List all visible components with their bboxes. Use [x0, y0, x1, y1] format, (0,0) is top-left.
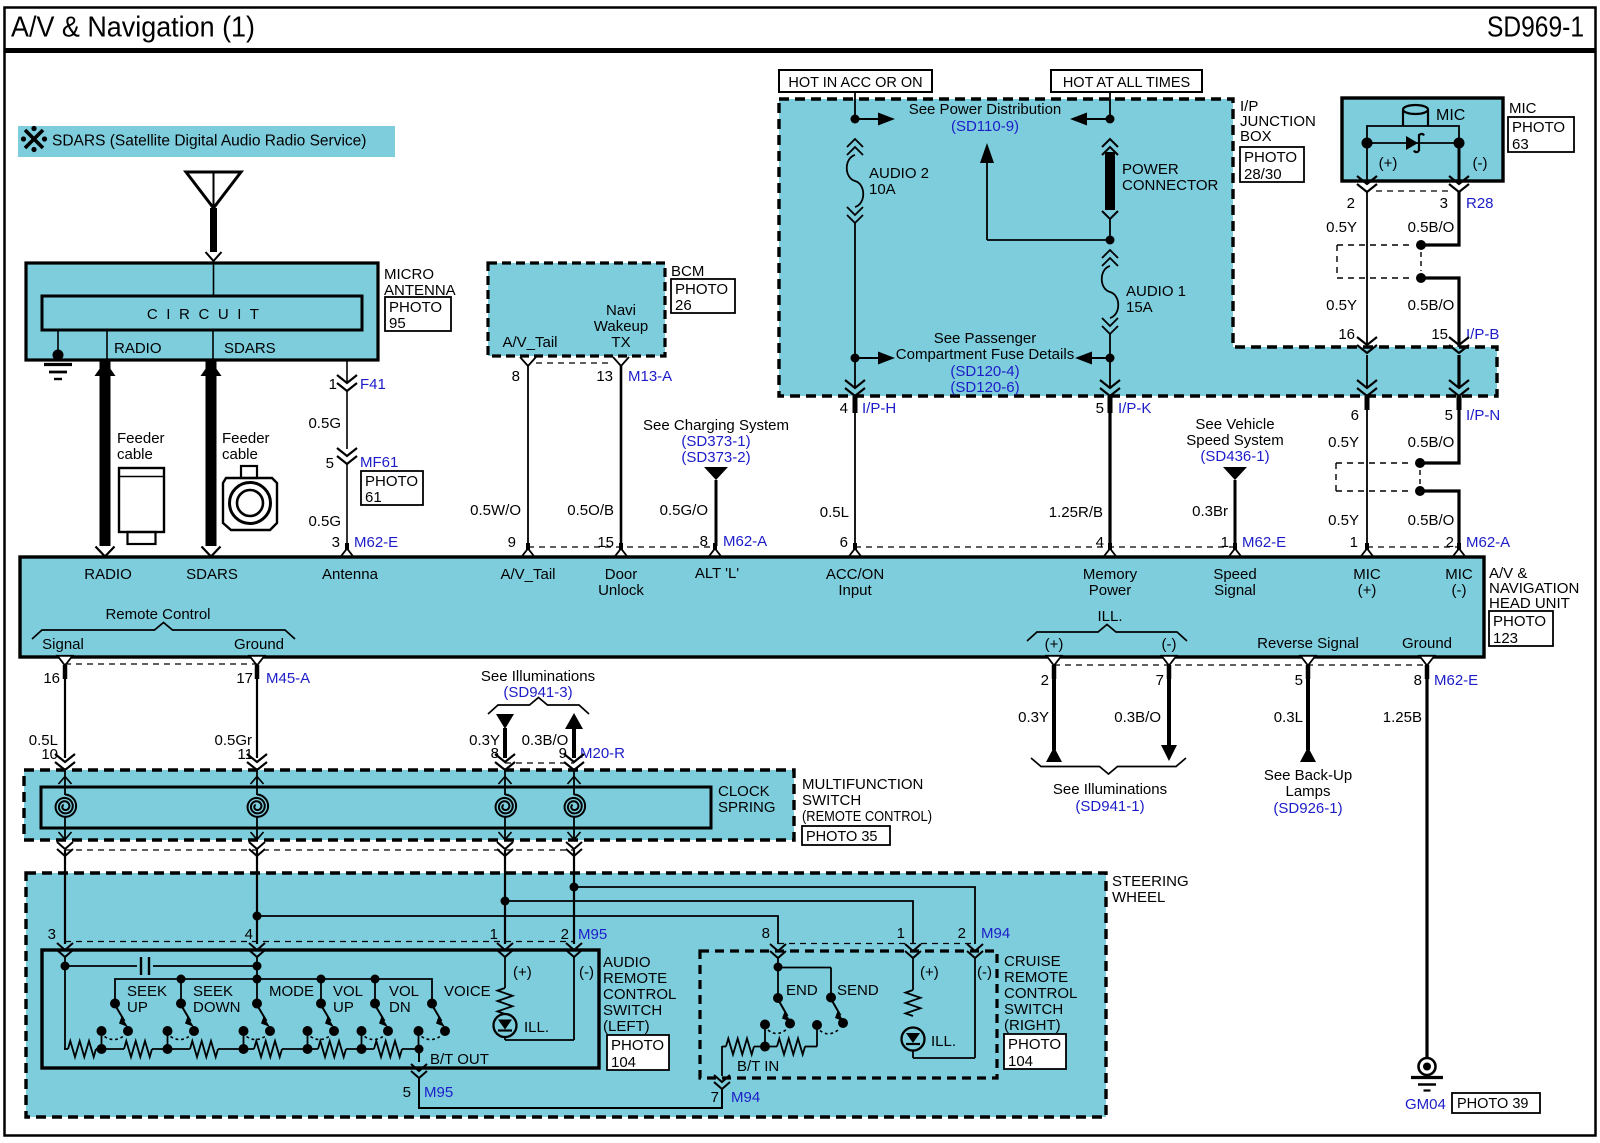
title separator rule	[4, 48, 1596, 53]
mic polarity labels	[1379, 155, 1488, 172]
wire 0.5Y lower	[1328, 410, 1367, 546]
shield node d	[1415, 486, 1425, 496]
illumination arrow down (0.3Y)	[469, 714, 514, 758]
svg-text:0.5L: 0.5L	[820, 504, 849, 521]
cruise branch to SEND	[778, 968, 831, 998]
svg-text:5: 5	[326, 455, 334, 472]
MIC label	[1509, 100, 1537, 117]
connector M62-E boundary bottom	[1041, 665, 1479, 689]
svg-text:0.5Y: 0.5Y	[1326, 297, 1357, 314]
svg-text:(-): (-)	[977, 964, 992, 981]
connector R28 pin3	[1449, 176, 1469, 192]
svg-text:PHOTO: PHOTO	[1244, 149, 1297, 166]
mic minus pin V notch	[1452, 543, 1467, 558]
see passenger compartment fuse details reference	[896, 330, 1074, 396]
wire pin4 inside	[256, 957, 258, 1003]
audio switch entry pin3	[57, 943, 73, 957]
svg-text:(+): (+)	[1358, 582, 1377, 599]
svg-text:See Back-Up: See Back-Up	[1264, 767, 1352, 784]
audio ILL wire upper	[504, 957, 506, 988]
svg-text:104: 104	[611, 1054, 636, 1071]
svg-text:HOT AT ALL TIMES: HOT AT ALL TIMES	[1063, 75, 1190, 91]
clock spring coil 2	[248, 770, 269, 840]
svg-text:Feeder: Feeder	[117, 430, 165, 447]
connector I/P-N pin5	[1449, 380, 1469, 410]
svg-text:PHOTO: PHOTO	[1512, 119, 1565, 136]
wire 0.5G/O	[660, 480, 716, 546]
ILL+ pin V notch	[1047, 656, 1062, 666]
svg-text:MIC: MIC	[1509, 100, 1537, 117]
audio ILL LED	[494, 1014, 550, 1037]
svg-text:5: 5	[1445, 407, 1453, 424]
svg-text:Ground: Ground	[234, 636, 284, 653]
svg-text:13: 13	[596, 368, 613, 385]
wire pin1 drop	[504, 850, 506, 944]
ILL group label	[1027, 608, 1187, 641]
switch bus	[115, 979, 432, 1003]
see power distribution reference	[909, 101, 1062, 135]
audio ILL resistor	[498, 988, 513, 1014]
svg-text:2: 2	[958, 925, 966, 942]
svg-text:HEAD UNIT: HEAD UNIT	[1489, 595, 1570, 612]
svg-text:104: 104	[1008, 1053, 1033, 1070]
svg-text:ILL.: ILL.	[524, 1019, 549, 1036]
wire hot-all feed	[1109, 92, 1111, 119]
bus node seek-down	[177, 975, 186, 1004]
svg-text:6: 6	[1351, 407, 1359, 424]
BCM pin 13 notch	[613, 357, 629, 366]
wire power connector to node	[1109, 219, 1111, 240]
shield dashed box lower	[1336, 463, 1420, 491]
svg-text:Input: Input	[838, 582, 872, 599]
wire antenna to F41	[346, 360, 348, 383]
sdars feeder connector symbol	[223, 466, 277, 530]
svg-text:M95: M95	[578, 926, 607, 943]
svg-text:(-): (-)	[1452, 582, 1467, 599]
svg-text:M94: M94	[981, 925, 1010, 942]
chassis ground symbol	[44, 365, 72, 380]
svg-text:B/T IN: B/T IN	[737, 1058, 779, 1075]
photo ref box PHOTO 35	[802, 826, 890, 845]
svg-text:VOL: VOL	[389, 983, 419, 1000]
svg-text:See Illuminations: See Illuminations	[481, 668, 595, 685]
switch VOICE	[414, 983, 491, 1049]
ground out pin V notch	[1420, 656, 1435, 666]
mic node plus	[1362, 138, 1373, 149]
svg-text:M62-A: M62-A	[723, 533, 767, 550]
svg-text:PHOTO: PHOTO	[1493, 613, 1546, 630]
wire 0.5B/O lower segment b	[1408, 491, 1459, 546]
ACC/ON pin V notch	[848, 543, 863, 558]
svg-text:M95: M95	[424, 1084, 453, 1101]
svg-text:(LEFT): (LEFT)	[603, 1018, 650, 1035]
ILL minus label	[1162, 636, 1177, 653]
svg-text:95: 95	[389, 315, 406, 332]
connector M94 boundary	[762, 925, 1011, 944]
door unlock pin V notch	[614, 543, 629, 558]
memory power pin V notch	[1103, 543, 1118, 558]
svg-text:Door: Door	[605, 566, 638, 583]
clock spring exit connector 1	[57, 842, 73, 856]
B/T IN wire	[722, 1046, 779, 1076]
fuse AUDIO 2 10A	[847, 139, 929, 223]
svg-text:MIC: MIC	[1445, 566, 1473, 583]
svg-text:ILL.: ILL.	[1097, 608, 1122, 625]
clock spring coil 1	[56, 770, 77, 840]
svg-text:R28: R28	[1466, 195, 1494, 212]
connector R28 boundary	[1347, 191, 1494, 212]
wire 1.25R/B	[1049, 413, 1110, 546]
clock spring exit connector 4	[566, 842, 582, 856]
svg-text:Unlock: Unlock	[598, 582, 644, 599]
sdars feeder wire (thick)	[201, 361, 222, 557]
ground GM04 label	[1405, 1096, 1446, 1113]
diode symbol	[1406, 134, 1424, 152]
connector M62-A boundary right	[1350, 534, 1511, 551]
svg-text:3: 3	[1440, 195, 1448, 212]
svg-text:REMOTE: REMOTE	[603, 970, 667, 987]
svg-text:M45-A: M45-A	[266, 670, 310, 687]
svg-text:10A: 10A	[869, 181, 896, 198]
switch VOL UP	[303, 983, 364, 1049]
svg-text:26: 26	[675, 297, 692, 314]
svg-text:ACC/ON: ACC/ON	[826, 566, 884, 583]
svg-text:3: 3	[48, 926, 56, 943]
svg-text:(SD373-2): (SD373-2)	[681, 449, 750, 466]
mic wire right	[1428, 126, 1459, 143]
legend note box (SDARS)	[18, 126, 395, 157]
svg-text:BCM: BCM	[671, 263, 704, 280]
svg-text:SWITCH: SWITCH	[1004, 1001, 1063, 1018]
svg-text:PHOTO: PHOTO	[389, 299, 442, 316]
I/P junction box outline	[779, 99, 1497, 396]
svg-text:CONNECTOR: CONNECTOR	[1122, 177, 1219, 194]
svg-text:Speed: Speed	[1213, 566, 1256, 583]
fuse AUDIO 1 15A	[1102, 250, 1186, 334]
svg-text:(SD436-1): (SD436-1)	[1200, 448, 1269, 465]
reverse signal label	[1257, 635, 1359, 652]
svg-text:C I R C U I T: C I R C U I T	[147, 306, 261, 323]
svg-text:0.5B/O: 0.5B/O	[1408, 512, 1455, 529]
svg-text:8: 8	[512, 368, 520, 385]
cruise ILL wire upper	[912, 958, 914, 990]
audio switch name label	[603, 954, 676, 1035]
multifunction switch label	[802, 776, 932, 825]
svg-text:16: 16	[43, 670, 60, 687]
pin 3 M62-E label	[332, 534, 399, 551]
svg-text:0.5Y: 0.5Y	[1326, 219, 1357, 236]
branch wire to cruise pin8	[257, 916, 778, 944]
svg-text:DOWN: DOWN	[193, 999, 241, 1016]
svg-text:2: 2	[1347, 195, 1355, 212]
svg-text:(+): (+)	[513, 964, 532, 981]
svg-text:0.5G: 0.5G	[308, 513, 341, 530]
wire 0.3Y ILL plus	[1018, 665, 1062, 762]
svg-text:Speed System: Speed System	[1186, 432, 1284, 449]
steering wheel label	[1112, 873, 1189, 906]
wire 0.5Y upper	[1326, 192, 1367, 347]
wire 1.25B ground	[1383, 665, 1427, 1058]
svg-text:MICRO: MICRO	[384, 266, 434, 283]
svg-text:UP: UP	[333, 999, 354, 1016]
svg-text:7: 7	[711, 1089, 719, 1106]
node pin4 branch	[253, 912, 262, 921]
wire 0.5B/O upper segment a	[1408, 192, 1459, 245]
connector F41	[329, 375, 386, 393]
wire 0.5L remote signal	[29, 665, 65, 763]
svg-text:SPRING: SPRING	[718, 799, 776, 816]
switch END	[760, 982, 818, 1047]
svg-text:6: 6	[840, 534, 848, 551]
svg-text:SDARS (Satellite Digital Audio: SDARS (Satellite Digital Audio Radio Ser…	[52, 133, 366, 150]
svg-text:(SD110-9): (SD110-9)	[951, 118, 1019, 135]
svg-text:M13-A: M13-A	[628, 368, 672, 385]
svg-text:3: 3	[332, 534, 340, 551]
feeder cable label (radio)	[117, 430, 165, 463]
cruise switch entry pin1	[905, 944, 921, 958]
svg-text:STEERING: STEERING	[1112, 873, 1189, 890]
svg-text:63: 63	[1512, 136, 1529, 153]
wire to I/P-H exit	[854, 358, 856, 388]
connector M20-R boundary	[491, 745, 626, 763]
photo ref box PHOTO 61	[361, 471, 423, 506]
connector M13-A boundary	[512, 363, 673, 385]
svg-text:0.5O/B: 0.5O/B	[567, 502, 614, 519]
node pin2 branch	[570, 883, 579, 892]
svg-text:I/P-B: I/P-B	[1466, 326, 1499, 343]
BCM label	[671, 263, 704, 280]
svg-text:MF61: MF61	[360, 454, 398, 471]
feeder cable label (sdars)	[222, 430, 270, 463]
svg-text:PHOTO: PHOTO	[1008, 1036, 1061, 1053]
reverse pin V notch	[1301, 656, 1316, 666]
clock spring coil 4	[565, 770, 586, 840]
svg-text:BOX: BOX	[1240, 128, 1272, 145]
sdars lead wire	[213, 330, 276, 360]
connector I/P-B boundary	[1338, 326, 1499, 343]
see back-up lamps reference	[1264, 767, 1352, 817]
svg-text:(+): (+)	[1379, 155, 1398, 172]
wire audio2 to node	[854, 223, 856, 358]
svg-text:Memory: Memory	[1083, 566, 1138, 583]
audio switch entry pin1	[497, 943, 513, 957]
cruise resistor chain	[722, 1027, 817, 1055]
ground GM04 symbol	[1411, 1058, 1443, 1091]
pin 6 label	[840, 534, 848, 551]
node cruise pin8	[774, 963, 783, 972]
svg-text:M62-E: M62-E	[1434, 672, 1478, 689]
svg-text:CRUISE: CRUISE	[1004, 953, 1061, 970]
svg-text:ALT 'L': ALT 'L'	[695, 565, 739, 582]
clock spring coil 3	[496, 770, 516, 840]
see charging system reference	[643, 417, 789, 480]
hot at all times tag	[1051, 70, 1202, 92]
photo ref box PHOTO 104 left	[607, 1035, 669, 1071]
svg-text:(SD373-1): (SD373-1)	[681, 433, 750, 450]
head unit pin labels row	[84, 565, 1473, 599]
svg-text:Feeder: Feeder	[222, 430, 270, 447]
svg-text:SD969-1: SD969-1	[1487, 12, 1584, 44]
node hot-acc	[851, 115, 860, 124]
wire 0.5G lower	[308, 464, 347, 546]
photo ref box PHOTO 123	[1489, 611, 1553, 647]
mic lead plus	[1366, 143, 1368, 181]
BCM pin 8 notch	[520, 357, 536, 366]
BCM box	[488, 263, 665, 356]
mic node minus	[1454, 138, 1465, 149]
microphone symbol	[1403, 105, 1465, 126]
svg-text:I/P-N: I/P-N	[1466, 407, 1500, 424]
audio switch entry pin4	[249, 943, 265, 957]
clock spring inner box	[41, 787, 711, 828]
clock spring exit connector 2	[249, 842, 265, 856]
switch MODE	[239, 983, 315, 1049]
wire to I/P-K exit	[1109, 358, 1111, 388]
svg-text:0.3B/O: 0.3B/O	[1114, 709, 1161, 726]
svg-text:M62-A: M62-A	[1466, 534, 1510, 551]
svg-text:Navi: Navi	[606, 302, 636, 319]
resistor ladder chain	[64, 1041, 421, 1057]
arrow to power distribution (right)	[1070, 113, 1110, 126]
node B/T OUT	[415, 1045, 424, 1054]
circuit box	[42, 296, 362, 330]
ground pin label	[1402, 635, 1452, 652]
svg-text:2: 2	[1446, 534, 1454, 551]
svg-text:4: 4	[840, 400, 848, 417]
svg-text:See Passenger: See Passenger	[934, 330, 1037, 347]
B/T link wire	[419, 1078, 722, 1108]
head unit name label	[1489, 565, 1579, 612]
ILL plus label	[1045, 636, 1064, 653]
cruise pin8 wire	[777, 958, 779, 998]
svg-text:AUDIO 1: AUDIO 1	[1126, 283, 1186, 300]
svg-text:cable: cable	[117, 446, 153, 463]
radio feeder wire (thick)	[95, 361, 116, 557]
shield node a	[1416, 240, 1426, 250]
connector MF61	[326, 448, 399, 472]
wire pin2 drop	[573, 850, 575, 944]
svg-text:POWER: POWER	[1122, 161, 1179, 178]
svg-text:AUDIO: AUDIO	[603, 954, 651, 971]
svg-text:9: 9	[559, 745, 567, 762]
switch VOL DN	[357, 983, 420, 1049]
ILL- pin V notch	[1162, 656, 1177, 666]
svg-text:4: 4	[1096, 534, 1104, 551]
svg-text:Signal: Signal	[42, 636, 84, 653]
antenna pin V notch	[340, 543, 355, 558]
connector boundary below clock spring	[65, 849, 574, 851]
A/V & navigation head unit box	[20, 557, 1484, 657]
connector M95 boundary	[48, 926, 608, 943]
svg-text:Ground: Ground	[1402, 635, 1452, 652]
svg-text:1: 1	[329, 376, 337, 393]
svg-text:0.5W/O: 0.5W/O	[470, 502, 521, 519]
svg-text:0.5B/O: 0.5B/O	[1408, 219, 1455, 236]
svg-text:REMOTE: REMOTE	[1004, 969, 1068, 986]
illumination arrow up (0.3B/O)	[522, 713, 583, 758]
BCM pin labels	[502, 302, 648, 351]
wire 0.5B/O lower segment a	[1408, 410, 1459, 463]
see vehicle speed system reference	[1186, 416, 1284, 480]
svg-text:(SD941-1): (SD941-1)	[1075, 798, 1144, 815]
svg-text:8: 8	[491, 745, 499, 762]
svg-text:I/P-K: I/P-K	[1118, 400, 1151, 417]
svg-text:A/V & Navigation (1): A/V & Navigation (1)	[11, 12, 255, 44]
wire mic minus inside junction box	[1457, 355, 1460, 388]
svg-text:Remote Control: Remote Control	[105, 606, 210, 623]
svg-text:(REMOTE CONTROL): (REMOTE CONTROL)	[802, 808, 932, 825]
svg-text:0.5G/O: 0.5G/O	[660, 502, 708, 519]
svg-text:Compartment Fuse Details: Compartment Fuse Details	[896, 346, 1074, 363]
node hot-all	[1106, 115, 1115, 124]
svg-text:(SD120-4): (SD120-4)	[950, 363, 1019, 380]
switch SEND	[812, 982, 879, 1034]
svg-text:1.25R/B: 1.25R/B	[1049, 504, 1103, 521]
svg-text:B/T OUT: B/T OUT	[430, 1051, 489, 1068]
svg-text:SWITCH: SWITCH	[802, 792, 861, 809]
wire pin4 drop	[256, 850, 258, 944]
svg-text:15A: 15A	[1126, 299, 1153, 316]
svg-text:28/30: 28/30	[1244, 166, 1282, 183]
node below power connector	[1106, 236, 1115, 245]
pin 9 label	[508, 534, 516, 551]
svg-text:Power: Power	[1089, 582, 1132, 599]
svg-text:RADIO: RADIO	[84, 566, 132, 583]
svg-text:MODE: MODE	[269, 983, 314, 1000]
svg-text:11: 11	[237, 746, 253, 763]
audio ILL plus label	[513, 964, 532, 981]
svg-text:VOL: VOL	[333, 983, 363, 1000]
capacitor symbol	[65, 957, 257, 975]
mic internal bus	[1367, 142, 1459, 144]
signal pin V notch	[58, 656, 73, 666]
branch arrow up to SD110-9	[980, 143, 1110, 240]
svg-text:I/P-H: I/P-H	[862, 400, 896, 417]
svg-text:SEEK: SEEK	[193, 983, 233, 1000]
speed signal pin V notch	[1228, 543, 1243, 558]
svg-text:0.3Br: 0.3Br	[1192, 503, 1228, 520]
clock spring entry pin9	[564, 754, 584, 770]
svg-text:PHOTO 39: PHOTO 39	[1457, 1096, 1528, 1112]
svg-text:0.5Y: 0.5Y	[1328, 512, 1359, 529]
photo ref box PHOTO 26	[671, 279, 735, 314]
mic plus pin V notch	[1360, 543, 1375, 558]
svg-text:WHEEL: WHEEL	[1112, 889, 1165, 906]
svg-text:(+): (+)	[1045, 636, 1064, 653]
svg-text:61: 61	[365, 489, 382, 506]
arrow to fuse details (right)	[1075, 352, 1110, 365]
svg-text:See Power Distribution: See Power Distribution	[909, 101, 1062, 118]
clock spring entry pin8	[495, 754, 515, 770]
svg-text:TX: TX	[611, 334, 630, 351]
antenna lead wire	[213, 263, 215, 296]
switch SEEK UP	[97, 983, 168, 1049]
svg-text:17: 17	[236, 670, 253, 687]
connector I/P-H exit	[840, 380, 897, 417]
svg-text:2: 2	[1041, 672, 1049, 689]
wire 0.5G upper	[308, 391, 347, 449]
svg-text:(SD926-1): (SD926-1)	[1273, 800, 1342, 817]
arrow to power distribution (left)	[855, 113, 895, 126]
remote control signal label	[42, 636, 84, 653]
svg-text:(+): (+)	[920, 964, 939, 981]
ALT L pin V notch	[708, 543, 723, 558]
svg-text:0.5Y: 0.5Y	[1328, 434, 1359, 451]
connector M95 pin5	[403, 1064, 454, 1101]
svg-text:RADIO: RADIO	[114, 340, 162, 357]
cruise switch entry pin8	[770, 944, 786, 958]
see illuminations SD941-1 reference	[1031, 758, 1186, 815]
